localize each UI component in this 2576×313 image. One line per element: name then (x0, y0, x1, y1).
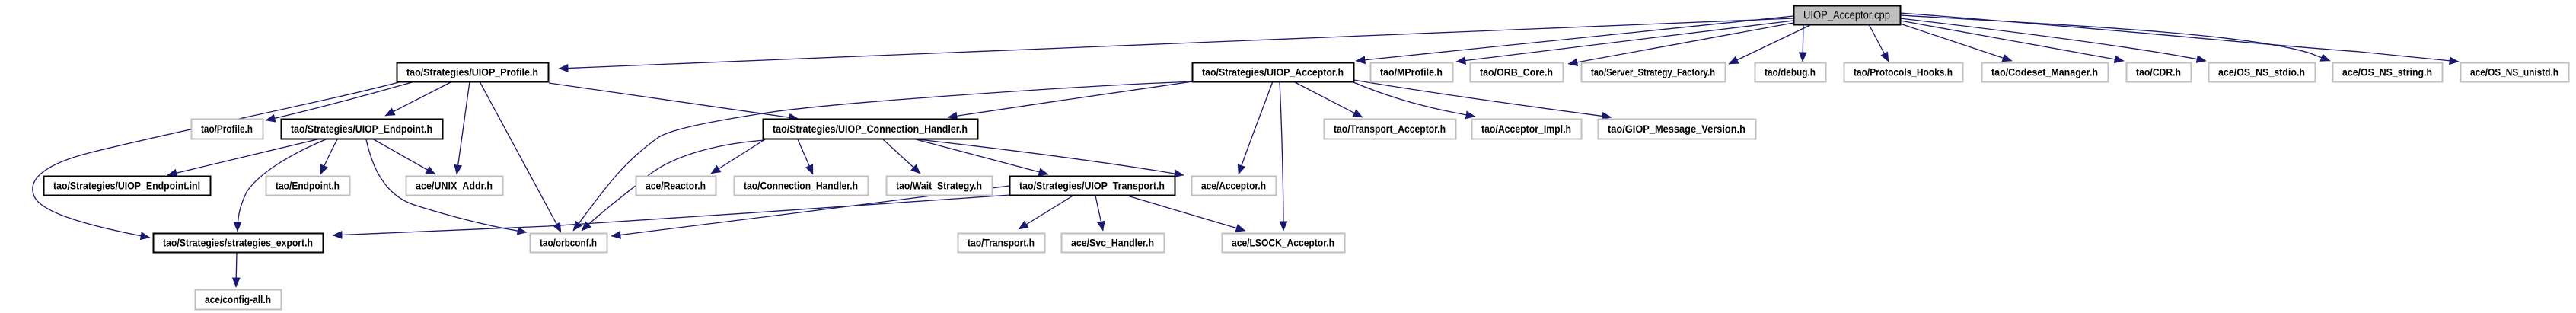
edge UIOP_Profile.h -> strategies_export.h (33, 82, 399, 238)
svg-text:ace/Reactor.h: ace/Reactor.h (646, 180, 706, 192)
node tao/Transport.h (958, 234, 1045, 253)
node tao/Connection_Handler.h (735, 177, 869, 196)
node tao/Strategies/UIOP_Transport.h (1010, 177, 1175, 196)
edge UIOP_Connection_Handler.h -> tao/Connection_Handler.h (798, 139, 813, 174)
svg-text:tao/orbconf.h: tao/orbconf.h (540, 237, 597, 249)
edge UIOP_Acceptor.cpp -> MProfile.h (1456, 21, 1793, 62)
edge UIOP_Acceptor.cpp -> OS_NS_string.h (1900, 15, 2330, 61)
node tao/Strategies/strategies_export.h (154, 234, 324, 253)
svg-text:tao/Acceptor_Impl.h: tao/Acceptor_Impl.h (1481, 123, 1571, 135)
edge UIOP_Acceptor.cpp -> OS_NS_unistd.h (1900, 13, 2459, 62)
svg-text:tao/Strategies/UIOP_Connection: tao/Strategies/UIOP_Connection_Handler.h (773, 123, 968, 135)
node tao/debug.h (1755, 63, 1826, 82)
svg-text:ace/Svc_Handler.h: ace/Svc_Handler.h (1071, 237, 1154, 249)
edge UIOP_Profile.h -> UIOP_Endpoint.h (385, 81, 452, 116)
svg-text:tao/Strategies/UIOP_Profile.h: tao/Strategies/UIOP_Profile.h (406, 66, 538, 78)
svg-text:UIOP_Acceptor.cpp: UIOP_Acceptor.cpp (1803, 9, 1890, 22)
node ace/Reactor.h (636, 177, 716, 196)
svg-text:tao/Transport.h: tao/Transport.h (968, 237, 1035, 249)
node tao/Strategies/UIOP_Acceptor.h (1193, 63, 1354, 82)
edge UIOP_Acceptor.cpp -> CDR.h (1900, 21, 2124, 61)
edge UIOP_Profile.h -> UIOP_Connection_Handler.h (549, 83, 799, 119)
node ace/UNIX_Addr.h (406, 177, 503, 196)
node ace/Svc_Handler.h (1062, 234, 1165, 253)
edge UIOP_Endpoint.h -> tao/Endpoint.h (320, 139, 337, 174)
edge UIOP_Endpoint.h -> strategies_export.h (238, 139, 326, 232)
node tao/Wait_Strategy.h (887, 177, 993, 196)
edge UIOP_Acceptor.cpp -> OS_NS_stdio.h (1900, 18, 2206, 61)
edge UIOP_Acceptor.cpp -> UIOP_Profile.h (559, 18, 1793, 69)
edge UIOP_Connection_Handler.h -> UIOP_Transport.h (916, 139, 1048, 174)
node tao/Strategies/UIOP_Endpoint.inl (44, 177, 211, 196)
edge UIOP_Endpoint.h -> UNIX_Addr.h (372, 139, 435, 174)
svg-text:tao/Protocols_Hooks.h: tao/Protocols_Hooks.h (1854, 66, 1953, 78)
svg-text:ace/OS_NS_unistd.h: ace/OS_NS_unistd.h (2470, 66, 2558, 78)
svg-text:tao/Strategies/UIOP_Endpoint.i: tao/Strategies/UIOP_Endpoint.inl (53, 180, 200, 192)
node tao/Protocols_Hooks.h (1844, 63, 1963, 82)
node tao/Codeset_Manager.h (1982, 63, 2109, 82)
node tao/Server_Strategy_Factory.h (1582, 63, 1726, 82)
edge UIOP_Connection_Handler.h -> orbconf.h (582, 140, 764, 231)
edge UIOP_Acceptor.h -> UIOP_Connection_Handler.h (948, 81, 1193, 117)
svg-text:ace/OS_NS_stdio.h: ace/OS_NS_stdio.h (2218, 66, 2305, 78)
edge UIOP_Endpoint.h -> UIOP_Endpoint.inl (167, 139, 317, 175)
edge UIOP_Acceptor.h -> GIOP_Message_Version.h (1353, 80, 1612, 117)
edge UIOP_Acceptor.h -> Acceptor_Impl.h (1353, 82, 1475, 117)
edge UIOP_Acceptor.cpp -> UIOP_Acceptor.h (1356, 16, 1793, 61)
edge UIOP_Profile.h -> UNIX_Addr.h (457, 81, 470, 174)
node tao/Transport_Acceptor.h (1325, 120, 1456, 139)
edge UIOP_Profile.h -> tao/Profile.h (266, 81, 415, 120)
edge UIOP_Acceptor.cpp -> ORB_Core.h (1568, 23, 1793, 64)
edge UIOP_Transport.h -> tao/Transport.h (1019, 195, 1074, 229)
svg-text:tao/Wait_Strategy.h: tao/Wait_Strategy.h (896, 180, 982, 192)
edge UIOP_Endpoint.h -> orbconf.h (366, 139, 527, 232)
svg-text:tao/Endpoint.h: tao/Endpoint.h (276, 180, 340, 192)
node tao/Strategies/UIOP_Connection_Handler.h (764, 120, 978, 139)
node tao/GIOP_Message_Version.h (1599, 120, 1756, 139)
edge strategies_export.h -> ace/config-all.h (236, 252, 237, 287)
edge UIOP_Transport.h -> ace/Svc_Handler.h (1095, 196, 1103, 231)
svg-text:tao/Server_Strategy_Factory.h: tao/Server_Strategy_Factory.h (1591, 66, 1715, 78)
edge UIOP_Transport.h -> strategies_export.h (333, 195, 1010, 235)
edge UIOP_Acceptor.cpp -> Protocols_Hooks.h (1869, 24, 1889, 62)
edge UIOP_Acceptor.cpp -> Codeset_Manager.h (1900, 24, 2012, 61)
node tao/Strategies/UIOP_Profile.h (397, 63, 549, 82)
svg-text:tao/Connection_Handler.h: tao/Connection_Handler.h (744, 180, 858, 192)
svg-text:tao/ORB_Core.h: tao/ORB_Core.h (1480, 66, 1553, 78)
node ace/config-all.h (196, 290, 282, 310)
edge UIOP_Transport.h -> ace/LSOCK_Acceptor.h (1127, 196, 1245, 231)
svg-text:tao/CDR.h: tao/CDR.h (2136, 66, 2181, 78)
node tao/MProfile.h (1371, 63, 1453, 82)
svg-text:tao/Transport_Acceptor.h: tao/Transport_Acceptor.h (1334, 123, 1446, 135)
edge UIOP_Connection_Handler.h -> ace/Reactor.h (711, 139, 765, 174)
svg-text:tao/Strategies/UIOP_Endpoint.h: tao/Strategies/UIOP_Endpoint.h (291, 123, 432, 135)
svg-text:ace/Acceptor.h: ace/Acceptor.h (1201, 180, 1266, 192)
edge UIOP_Connection_Handler.h -> Wait_Strategy.h (883, 139, 920, 174)
edge UIOP_Transport.h -> orbconf.h (611, 186, 1009, 236)
node tao/Strategies/UIOP_Endpoint.h (282, 120, 443, 139)
node ace/OS_NS_unistd.h (2461, 63, 2569, 82)
svg-text:tao/MProfile.h: tao/MProfile.h (1380, 66, 1443, 78)
edge UIOP_Acceptor.h -> ace/LSOCK_Acceptor.h (1280, 81, 1283, 231)
node ace/OS_NS_string.h (2333, 63, 2443, 82)
edge UIOP_Connection_Handler.h -> ace/Acceptor.h (918, 139, 1184, 175)
svg-text:ace/UNIX_Addr.h: ace/UNIX_Addr.h (416, 180, 493, 192)
edge UIOP_Acceptor.cpp -> Server_Strategy_Factory.h (1729, 24, 1812, 64)
edge UIOP_Acceptor.h -> orbconf.h (573, 81, 1197, 231)
node tao/CDR.h (2127, 63, 2192, 82)
svg-text:ace/config-all.h: ace/config-all.h (205, 293, 271, 305)
node ace/LSOCK_Acceptor.h (1223, 234, 1345, 253)
svg-text:tao/GIOP_Message_Version.h: tao/GIOP_Message_Version.h (1608, 123, 1745, 135)
edge UIOP_Acceptor.h -> Transport_Acceptor.h (1295, 82, 1363, 117)
node tao/ORB_Core.h (1471, 63, 1564, 82)
node UIOP_Acceptor.cpp (1794, 6, 1901, 25)
svg-text:ace/LSOCK_Acceptor.h: ace/LSOCK_Acceptor.h (1232, 237, 1334, 249)
node ace/OS_NS_stdio.h (2209, 63, 2316, 82)
edge UIOP_Acceptor.h -> ace/Acceptor.h (1239, 81, 1273, 174)
svg-text:ace/OS_NS_string.h: ace/OS_NS_string.h (2342, 66, 2432, 78)
svg-text:tao/Codeset_Manager.h: tao/Codeset_Manager.h (1991, 66, 2098, 78)
node tao/Endpoint.h (266, 177, 350, 196)
edge UIOP_Acceptor.cpp -> debug.h (1803, 24, 1803, 62)
svg-text:tao/Strategies/UIOP_Transport.: tao/Strategies/UIOP_Transport.h (1019, 180, 1165, 192)
svg-text:tao/Strategies/UIOP_Acceptor.h: tao/Strategies/UIOP_Acceptor.h (1202, 66, 1344, 78)
edge UIOP_Profile.h -> orbconf.h (480, 81, 561, 232)
svg-text:tao/Profile.h: tao/Profile.h (201, 123, 253, 135)
node ace/Acceptor.h (1192, 177, 1277, 196)
node tao/Acceptor_Impl.h (1472, 120, 1582, 139)
node tao/orbconf.h (531, 234, 607, 253)
node tao/Profile.h (192, 120, 263, 139)
svg-text:tao/debug.h: tao/debug.h (1765, 66, 1816, 78)
svg-text:tao/Strategies/strategies_expo: tao/Strategies/strategies_export.h (163, 237, 313, 249)
